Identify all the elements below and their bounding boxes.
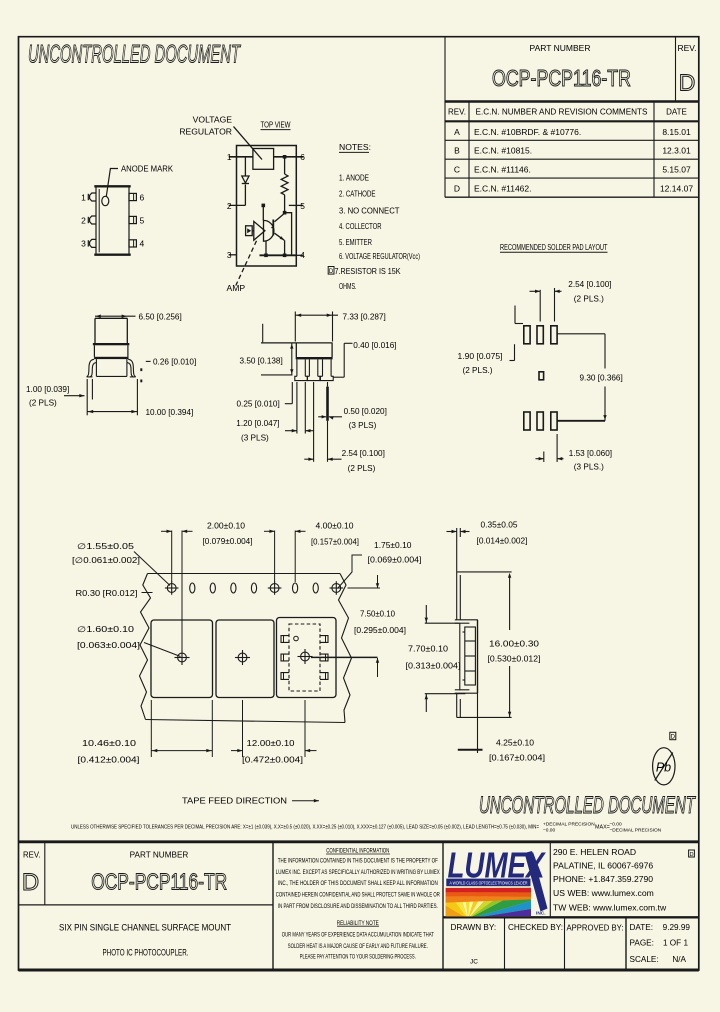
- svg-text:12.00±0.10: 12.00±0.10: [247, 739, 296, 748]
- svg-text:E.C.N. #11462.: E.C.N. #11462.: [474, 184, 532, 194]
- svg-text:PALATINE, IL 60067-6976: PALATINE, IL 60067-6976: [553, 860, 653, 870]
- svg-text:REV.: REV.: [23, 851, 40, 860]
- svg-text:MAX=: MAX=: [595, 825, 610, 831]
- component lead left: [281, 636, 289, 643]
- svg-text:0.40 [0.016]: 0.40 [0.016]: [353, 341, 396, 350]
- svg-text:PART NUMBER: PART NUMBER: [130, 851, 189, 860]
- node junction at pin6 rail: [283, 155, 287, 159]
- svg-text:APPROVED BY:: APPROVED BY:: [567, 924, 624, 933]
- svg-text:DRAWN BY:: DRAWN BY:: [451, 923, 497, 932]
- svg-text:E.C.N. #10815.: E.C.N. #10815.: [474, 146, 532, 156]
- svg-text:2.00±0.10: 2.00±0.10: [207, 522, 245, 531]
- svg-text:D: D: [22, 869, 39, 896]
- transistor Q1 collector: [275, 213, 285, 222]
- svg-text:TOP VIEW: TOP VIEW: [261, 120, 291, 129]
- schematic top view: [229, 127, 304, 286]
- op-amp triangle: [254, 221, 265, 240]
- svg-text:(2 PLS.): (2 PLS.): [463, 366, 493, 375]
- pocket left wall: [459, 623, 461, 690]
- svg-text:IN PART FROM DISCLOSURE AND DI: IN PART FROM DISCLOSURE AND DISSEMINATIO…: [278, 904, 438, 910]
- anode mark square: [539, 372, 544, 380]
- tape left torn edge: [140, 574, 151, 720]
- tape bottom edge: [146, 720, 346, 723]
- LED diode D1: [242, 176, 249, 183]
- svg-text:E.C.N. NUMBER AND REVISION COM: E.C.N. NUMBER AND REVISION COMMENTS: [476, 108, 648, 117]
- lead-free Pb symbol: [653, 748, 675, 785]
- svg-text:UNLESS OTHERWISE SPECIFIED TOL: UNLESS OTHERWISE SPECIFIED TOLERANCES PE…: [71, 825, 539, 831]
- pocket 2: [216, 620, 274, 698]
- svg-text:∅1.60±0.10: ∅1.60±0.10: [77, 625, 135, 634]
- svg-text:PHONE: +1.847.359.2790: PHONE: +1.847.359.2790: [553, 874, 653, 884]
- tape upper flat: [456, 572, 458, 620]
- ground rail wire: [260, 254, 297, 256]
- tape carrier plan view: [140, 574, 352, 723]
- svg-text:1.75±0.10: 1.75±0.10: [374, 541, 412, 550]
- svg-text:D: D: [329, 269, 334, 275]
- dim 0.50 arrows: [318, 416, 326, 418]
- dim 1.53 extensions: [543, 452, 545, 463]
- svg-text:5: 5: [300, 201, 305, 211]
- wire LED branch vertical: [244, 157, 246, 176]
- notes list: [335, 142, 421, 291]
- svg-text:12.14.07: 12.14.07: [660, 184, 693, 194]
- sprocket hole: [210, 583, 215, 593]
- voltage regulator box U1: [253, 149, 274, 170]
- svg-text:PAGE:: PAGE:: [630, 939, 654, 948]
- component lead right: [320, 673, 328, 680]
- lead: [308, 359, 310, 376]
- confidential information block: [276, 848, 440, 961]
- seating line right / 0.40 arrow line: [333, 376, 344, 378]
- tape right torn edge: [339, 574, 352, 723]
- svg-text:0.35±0.05: 0.35±0.05: [481, 521, 518, 530]
- svg-text:8.15.01: 8.15.01: [662, 127, 691, 137]
- pin lead left: [90, 239, 96, 247]
- sprocket hole crossed: [270, 584, 279, 593]
- component lead left: [281, 673, 289, 680]
- seating plane dotted marks: [140, 368, 142, 371]
- sprocket hole: [293, 583, 298, 593]
- svg-text:CONFIDENTIAL INFORMATION: CONFIDENTIAL INFORMATION: [326, 848, 389, 855]
- svg-text:B: B: [454, 146, 460, 156]
- svg-text:D: D: [679, 70, 696, 96]
- dim 12.00 extensions: [242, 700, 244, 757]
- svg-text:6: 6: [300, 152, 305, 162]
- logo banner: [446, 879, 530, 887]
- svg-text:US WEB: www.lumex.com: US WEB: www.lumex.com: [553, 888, 654, 898]
- node rail junction 1: [264, 254, 268, 258]
- tape top edge: [148, 573, 341, 575]
- svg-text:−0.00: −0.00: [610, 822, 622, 828]
- svg-text:16.00±0.30: 16.00±0.30: [489, 640, 540, 649]
- svg-text:3: 3: [81, 239, 86, 249]
- svg-text:290 E. HELEN ROAD: 290 E. HELEN ROAD: [553, 847, 636, 857]
- dim 0.40 bracket: [343, 343, 345, 377]
- svg-text:1: 1: [227, 152, 232, 162]
- lead3 centerline with thick bar: [327, 382, 329, 387]
- wire pin3 stub: [229, 254, 237, 256]
- sprocket hole crossed: [167, 584, 176, 593]
- revision D flag at note 7: [328, 267, 334, 275]
- svg-text:[0.167±0.004]: [0.167±0.004]: [489, 754, 545, 763]
- svg-text:AMP: AMP: [227, 283, 246, 293]
- package front view: [261, 312, 353, 462]
- dim 0.25 leader: [285, 403, 293, 405]
- svg-text:5: 5: [140, 215, 145, 225]
- component lead right: [320, 654, 328, 661]
- solder pad bottom row: [524, 412, 530, 430]
- svg-text:12.3.01: 12.3.01: [662, 146, 691, 156]
- anode mark circle: [102, 196, 109, 205]
- dim 10.46 extensions: [150, 700, 152, 757]
- svg-text:PLEASE PAY ATTENTION TO YOUR S: PLEASE PAY ATTENTION TO YOUR SOLDERING P…: [300, 954, 416, 960]
- svg-text:SCALE:: SCALE:: [630, 955, 659, 964]
- node amp supply dot: [262, 204, 266, 208]
- solder pad top row: [524, 326, 530, 344]
- svg-text:4: 4: [300, 250, 305, 260]
- photodiode PD1: [246, 226, 253, 236]
- tape feed arrow: [292, 800, 319, 802]
- Lumex logo: [368, 819, 568, 920]
- svg-text:1.20 [0.047]: 1.20 [0.047]: [236, 419, 279, 428]
- svg-text:LUMEX INC. EXCEPT AS SPECIFIC: LUMEX INC. EXCEPT AS SPECIFICALLY AUTHOR…: [276, 870, 440, 876]
- svg-text:[∅0.061±0.002]: [∅0.061±0.002]: [72, 556, 140, 565]
- dim 10.00 line: [87, 411, 137, 413]
- svg-text:10.46±0.10: 10.46±0.10: [82, 739, 137, 748]
- gull wing lead right: [128, 359, 136, 376]
- svg-text:0.26 [0.010]: 0.26 [0.010]: [153, 357, 196, 366]
- svg-text:4. COLLECTOR: 4. COLLECTOR: [339, 222, 382, 231]
- sprocket hole: [190, 583, 195, 593]
- svg-text:OHMS.: OHMS.: [339, 282, 357, 291]
- svg-text:9.30 [0.366]: 9.30 [0.366]: [580, 373, 623, 382]
- svg-text:TAPE FEED DIRECTION: TAPE FEED DIRECTION: [182, 796, 287, 806]
- wire pin1 to vreg: [229, 156, 253, 158]
- tape lower flat: [456, 693, 458, 717]
- component lead right: [320, 636, 328, 643]
- svg-text:6.50 [0.256]: 6.50 [0.256]: [139, 312, 182, 321]
- dim 0.26 tick: [146, 360, 151, 362]
- pin lead right: [129, 193, 136, 200]
- dim 6.50 line: [95, 315, 136, 317]
- svg-text:−DECIMAL PRECISION: −DECIMAL PRECISION: [610, 828, 662, 834]
- component profile blocks: [465, 627, 476, 685]
- IC outline: [237, 146, 297, 267]
- sprocket hole: [313, 583, 318, 593]
- body top line with left extension: [261, 342, 333, 344]
- dim 2.54: [304, 458, 313, 460]
- svg-text:INC.: INC.: [536, 911, 546, 917]
- svg-text:R0.30 [R0.012]: R0.30 [R0.012]: [76, 589, 138, 598]
- wire vreg to pin6: [274, 156, 304, 158]
- dim 9.30 connectors: [557, 333, 605, 335]
- leader R0.30: [142, 592, 153, 594]
- pin lead left: [90, 193, 96, 201]
- lead: [296, 359, 298, 376]
- pocket center mark: [238, 653, 247, 662]
- svg-text:[0.069±0.004]: [0.069±0.004]: [368, 556, 422, 565]
- svg-text:(2 PLS): (2 PLS): [348, 464, 376, 473]
- signature row: [451, 923, 691, 966]
- title block: [19, 842, 699, 970]
- svg-text:DATE:: DATE:: [630, 923, 654, 932]
- body: [295, 343, 297, 357]
- svg-text:5. EMITTER: 5. EMITTER: [339, 238, 372, 247]
- part number and revision table: [445, 37, 699, 197]
- sprocket centerline extension: [348, 587, 381, 589]
- solder pad top row: [551, 326, 557, 344]
- svg-text:1: 1: [81, 192, 86, 202]
- svg-text:JC: JC: [470, 959, 478, 966]
- voltage regulator leader: [234, 127, 263, 160]
- package top view body: [88, 169, 136, 255]
- svg-text:(3 PLS.): (3 PLS.): [574, 463, 604, 472]
- wire pin4 stub: [296, 254, 303, 256]
- leader dia 1.60: [144, 643, 181, 657]
- svg-text:RELIABILITY NOTE: RELIABILITY NOTE: [337, 920, 379, 927]
- sprocket hole crossed: [332, 584, 341, 593]
- wire photodiode to amp: [252, 230, 254, 232]
- svg-text:[0.157±0.004]: [0.157±0.004]: [311, 538, 359, 547]
- svg-text:C: C: [454, 165, 460, 175]
- gull wing lead left: [87, 359, 95, 376]
- pocket right wall: [477, 620, 479, 693]
- pocket 3 with component: [277, 618, 337, 698]
- dim 4.00 extensions: [274, 531, 276, 583]
- pocket center mark: [301, 652, 310, 661]
- component anode mark: [294, 636, 299, 641]
- pin lead left: [90, 216, 96, 224]
- svg-text:3. NO CONNECT: 3. NO CONNECT: [339, 207, 400, 216]
- pocket center mark: [178, 653, 187, 662]
- svg-text:0.25 [0.010]: 0.25 [0.010]: [237, 399, 280, 408]
- svg-text:5.15.07: 5.15.07: [662, 165, 691, 175]
- dim 7.33: [295, 314, 338, 316]
- dim 1.75 hook: [338, 555, 363, 589]
- sprocket hole: [231, 583, 236, 593]
- svg-text:[0.014±0.002]: [0.014±0.002]: [477, 537, 528, 546]
- AMP leader dashed: [236, 241, 257, 286]
- svg-text:INC., THE HOLDER OF THIS DOCUM: INC., THE HOLDER OF THIS DOCUMENT SHALL …: [278, 881, 438, 887]
- transistor Q1 base bar: [272, 220, 274, 236]
- svg-text:REV.: REV.: [677, 43, 696, 53]
- pocket top flange: [455, 619, 478, 621]
- dim 7.70 extensions: [425, 622, 459, 624]
- svg-text:[0.063±0.004]: [0.063±0.004]: [77, 641, 140, 650]
- svg-text:CHECKED BY:: CHECKED BY:: [508, 923, 563, 932]
- wire collector node to right runner: [285, 213, 292, 256]
- logo X swoosh: [525, 851, 548, 912]
- component lead left: [281, 654, 289, 661]
- svg-text:7.33 [0.287]: 7.33 [0.287]: [343, 312, 386, 321]
- svg-text:A: A: [454, 127, 460, 137]
- svg-text:2. CATHODE: 2. CATHODE: [339, 190, 376, 199]
- svg-text:SIX PIN SINGLE CHANNEL SURFACE: SIX PIN SINGLE CHANNEL SURFACE MOUNT: [59, 923, 231, 933]
- dim 16.00 line: [509, 577, 511, 631]
- anode mark leader: [106, 169, 118, 197]
- svg-text:2: 2: [227, 201, 232, 211]
- revision D flag near Pb: [670, 732, 676, 739]
- pocket bottom flange: [455, 689, 470, 691]
- wire amp ground: [265, 241, 267, 255]
- svg-text:CONTAINED HEREIN CONFIDENTIAL: CONTAINED HEREIN CONFIDENTIAL AND SHALL …: [276, 893, 440, 899]
- wire pin2 to LED branch: [229, 204, 246, 206]
- pocket 1: [151, 620, 213, 698]
- svg-text:1.00 [0.039]: 1.00 [0.039]: [26, 385, 69, 394]
- svg-text:4.25±0.10: 4.25±0.10: [496, 739, 534, 748]
- svg-text:4: 4: [140, 239, 145, 249]
- solder pad bottom row: [551, 412, 557, 430]
- svg-text:E.C.N. #11146.: E.C.N. #11146.: [474, 165, 531, 175]
- lead: [322, 359, 324, 376]
- dim 1.90 brackets: [514, 306, 516, 324]
- tape section view: [425, 528, 512, 753]
- dim 1.20 extensions: [296, 382, 298, 434]
- svg-text:+DECIMAL PRECISION: +DECIMAL PRECISION: [543, 822, 595, 828]
- svg-text:N/A: N/A: [672, 955, 686, 964]
- svg-text:1 OF 1: 1 OF 1: [663, 939, 688, 948]
- svg-text:D: D: [689, 852, 693, 858]
- svg-text:[0.530±0.012]: [0.530±0.012]: [488, 655, 541, 664]
- wire amp supply: [262, 207, 264, 221]
- svg-text:∅1.55±0.05: ∅1.55±0.05: [77, 542, 135, 551]
- svg-text:1. ANODE: 1. ANODE: [339, 173, 369, 182]
- dim 2.00 extensions: [171, 531, 173, 583]
- svg-text:PART NUMBER: PART NUMBER: [530, 43, 591, 53]
- dim 1.00 arrow: [64, 395, 85, 397]
- svg-text:7.RESISTOR IS 15K: 7.RESISTOR IS 15K: [335, 267, 401, 276]
- dim 3.50: [262, 324, 264, 343]
- svg-text:VOLTAGE: VOLTAGE: [193, 114, 233, 124]
- svg-text:OCP-PCP116-TR: OCP-PCP116-TR: [492, 65, 631, 91]
- svg-text:UNCONTROLLED DOCUMENT: UNCONTROLLED DOCUMENT: [479, 792, 696, 819]
- svg-text:OUR MANY YEARS OF EXPERIENCE D: OUR MANY YEARS OF EXPERIENCE DATA ACCUMU…: [282, 933, 434, 939]
- node rail junction 2: [283, 254, 287, 258]
- package end view: [64, 315, 151, 416]
- resistor R1: [281, 174, 288, 195]
- svg-text:ANODE MARK: ANODE MARK: [121, 164, 174, 173]
- dim 4.25: [477, 693, 479, 753]
- pin lead right: [129, 216, 136, 223]
- sprocket hole: [251, 583, 256, 593]
- svg-text:10.00 [0.394]: 10.00 [0.394]: [146, 408, 194, 417]
- svg-text:REV.: REV.: [448, 108, 466, 117]
- 16.00 top extension: [457, 571, 512, 573]
- wire to resistor: [284, 157, 286, 174]
- svg-text:(3 PLS): (3 PLS): [349, 421, 377, 430]
- transistor Q1 emitter with arrow: [275, 233, 285, 240]
- svg-text:D: D: [671, 735, 676, 741]
- svg-text:9.29.99: 9.29.99: [663, 923, 691, 932]
- svg-text:UNCONTROLLED DOCUMENT: UNCONTROLLED DOCUMENT: [28, 41, 241, 69]
- dim 0.35: [456, 528, 458, 572]
- svg-text:(2 PLS.): (2 PLS.): [574, 294, 604, 303]
- svg-text:−0.00: −0.00: [543, 828, 555, 834]
- svg-text:SOLDER HEAT IS A MAJOR CAUSE O: SOLDER HEAT IS A MAJOR CAUSE OF EARLY AN…: [288, 944, 428, 950]
- svg-text:E.C.N. #10BRDF. & #10776.: E.C.N. #10BRDF. & #10776.: [474, 127, 581, 137]
- 16.00 bottom extension: [457, 716, 512, 718]
- svg-text:(3 PLS): (3 PLS): [241, 434, 269, 443]
- svg-text:RECOMMENDED SOLDER PAD LAYOUT: RECOMMENDED SOLDER PAD LAYOUT: [500, 243, 608, 252]
- lead2 centerline: [313, 382, 315, 462]
- svg-text:[0.472±0.004]: [0.472±0.004]: [242, 756, 303, 765]
- svg-text:TW WEB: www.lumex.com.tw: TW WEB: www.lumex.com.tw: [553, 902, 667, 912]
- dim 2.54 extension lines: [539, 290, 541, 322]
- svg-text:6: 6: [140, 192, 145, 202]
- svg-text:[0.295±0.004]: [0.295±0.004]: [354, 626, 406, 635]
- svg-text:7.70±0.10: 7.70±0.10: [408, 645, 448, 654]
- pin lead right: [129, 240, 136, 247]
- dim 7.50 line: [377, 575, 379, 588]
- node collector junction: [283, 211, 287, 215]
- seating line left: [261, 374, 293, 376]
- svg-text:[0.412±0.004]: [0.412±0.004]: [78, 756, 140, 765]
- pocket centerline extension: [311, 656, 378, 658]
- svg-text:6. VOLTAGE REGULATOR(Vcc): 6. VOLTAGE REGULATOR(Vcc): [339, 252, 420, 261]
- svg-text:2.54 [0.100]: 2.54 [0.100]: [342, 449, 385, 458]
- svg-text:4.00±0.10: 4.00±0.10: [316, 522, 354, 531]
- svg-text:Pb: Pb: [656, 761, 671, 775]
- svg-text:3: 3: [227, 250, 232, 260]
- svg-text:1.90 [0.075]: 1.90 [0.075]: [458, 352, 503, 361]
- amplifier buffer D-shape: [264, 220, 274, 241]
- wire resistor to collector node: [284, 195, 286, 213]
- svg-text:[0.313±0.004]: [0.313±0.004]: [406, 662, 461, 671]
- solder pad bottom row: [537, 412, 543, 430]
- dim 10.00 extension lines: [86, 379, 88, 415]
- svg-text:2.54 [0.100]: 2.54 [0.100]: [568, 280, 611, 289]
- svg-text:NOTES:: NOTES:: [339, 142, 371, 152]
- svg-text:2: 2: [81, 215, 86, 225]
- svg-text:1.53 [0.060]: 1.53 [0.060]: [569, 449, 612, 458]
- svg-text:D: D: [454, 184, 460, 194]
- svg-text:[0.079±0.004]: [0.079±0.004]: [203, 537, 253, 546]
- revision D flag address: [689, 850, 695, 857]
- svg-text:REGULATOR: REGULATOR: [179, 126, 232, 136]
- wire pin5 stub: [289, 204, 304, 206]
- svg-text:THE INFORMATION CONTAINED IN T: THE INFORMATION CONTAINED IN THIS DOCUME…: [278, 858, 438, 864]
- address block: [553, 847, 667, 912]
- svg-text:OCP-PCP116-TR: OCP-PCP116-TR: [91, 869, 227, 895]
- svg-text:DATE: DATE: [666, 108, 687, 117]
- solder pad top row: [537, 326, 543, 344]
- svg-text:(2 PLS): (2 PLS): [29, 399, 57, 408]
- body outline: [95, 317, 127, 319]
- svg-text:PHOTO IC PHOTOCOUPLER.: PHOTO IC PHOTOCOUPLER.: [103, 948, 189, 958]
- svg-text:3.50 [0.138]: 3.50 [0.138]: [240, 356, 283, 365]
- leader dia 1.55: [134, 552, 170, 586]
- svg-text:0.50 [0.020]: 0.50 [0.020]: [344, 407, 387, 416]
- svg-text:7.50±0.10: 7.50±0.10: [360, 610, 395, 619]
